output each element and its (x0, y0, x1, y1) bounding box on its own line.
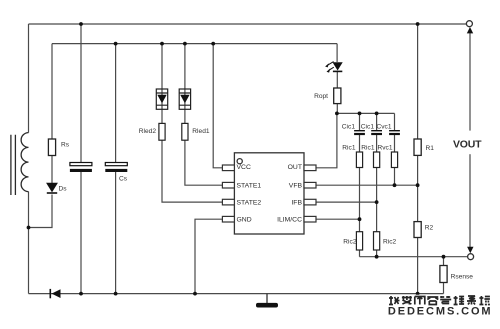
node bottom rail / GND (193, 292, 197, 296)
wire top rail (29, 23, 467, 25)
svg-text:R2: R2 (425, 225, 434, 232)
svg-text:Rsense: Rsense (451, 274, 474, 281)
wire compensation rail (337, 112, 395, 114)
svg-text:STATE2: STATE2 (237, 200, 262, 207)
svg-text:Ds: Ds (59, 186, 68, 193)
node VCC rail / VCC pin (211, 42, 215, 46)
wire Rs branch top (51, 44, 53, 139)
wire VFB pin to divider (316, 184, 418, 186)
pin box OUT (304, 165, 316, 171)
arrowhead down at VOUT- (467, 247, 473, 253)
resistor Ropt (334, 88, 341, 104)
wire GND pin to bottom rail (195, 219, 222, 293)
pin box STATE2 (222, 199, 234, 205)
transformer T1 winding arcs (21, 133, 28, 192)
op-amp U1 body (234, 153, 304, 234)
node VCC rail / D1 (183, 42, 187, 46)
pin box GND (222, 216, 234, 222)
wire primary winding left vertical top (28, 24, 30, 133)
pin box STATE1 (222, 182, 234, 188)
svg-text:Rled1: Rled1 (192, 128, 210, 135)
svg-text:VCC: VCC (237, 164, 251, 171)
capacitor C1 (70, 163, 92, 173)
pin 1 indicator circle (237, 159, 242, 164)
svg-text:Cvc1: Cvc1 (376, 124, 391, 131)
svg-text:IFB: IFB (291, 200, 302, 207)
wire Rsense top (443, 257, 445, 266)
wire comp branch3 lower (394, 168, 396, 186)
node comp rail / branch2 (375, 112, 379, 116)
node bottom rail / R2 (416, 292, 420, 296)
svg-text:R1: R1 (426, 145, 435, 152)
wire IFB pin (316, 201, 377, 203)
node IFB / branch2 (375, 200, 379, 204)
ground symbol (256, 294, 278, 308)
wire opto LED branch (336, 44, 338, 88)
svg-text:Ropt: Ropt (314, 93, 328, 100)
node comp rail / Ropt (335, 112, 339, 116)
wire Ds to winding jog (29, 195, 53, 228)
svg-text:Cic1: Cic1 (342, 124, 356, 131)
wire comp branch1 lower (359, 168, 361, 257)
resistor Rsense (440, 266, 447, 283)
capacitor Cic1 (branch1) (354, 131, 365, 134)
node ILIM / branch1 (358, 217, 362, 221)
node top rail / R1 (416, 22, 420, 26)
wire VOUT arrow line upper (469, 33, 471, 131)
node VCC rail / Cs (114, 42, 118, 46)
svg-text:Rled2: Rled2 (139, 128, 157, 135)
wire bottom ground rail (29, 293, 444, 295)
wire VOUT arrow line lower (469, 154, 471, 247)
resistor Rled1 (182, 123, 188, 140)
svg-text:Ric2: Ric2 (383, 239, 397, 246)
wire ILIM/CC pin (316, 218, 360, 220)
wire R1 branch (417, 24, 419, 185)
node VFB / Rvc1 (393, 183, 397, 187)
wire cap Cs branch (115, 44, 117, 294)
svg-text:DEDECMS.COM: DEDECMS.COM (388, 305, 493, 317)
resistor R1 (414, 139, 421, 155)
resistor Ric1 (356, 152, 362, 168)
wire comp branch2 upper (376, 113, 378, 152)
svg-text:Cic1: Cic1 (361, 124, 375, 131)
capacitor Cic1 (branch2) (371, 131, 382, 134)
node bottom rail / Cs (114, 292, 118, 296)
wire VOUT minus rail (360, 256, 468, 258)
wire Rsense bottom (443, 283, 445, 294)
wire R2 branch (417, 185, 419, 293)
LED D2 (in package box) (156, 89, 167, 109)
resistor Ric1 (branch2) (374, 152, 380, 168)
svg-text:OUT: OUT (288, 164, 302, 171)
node VOUT- rail / Rsense (442, 255, 446, 259)
wire Rled1 to STATE1 (185, 140, 223, 185)
node comp rail / branch1 (358, 112, 362, 116)
terminal VOUT- circle (468, 254, 474, 260)
wire LED D1 branch (184, 44, 186, 124)
svg-text:Cs: Cs (119, 176, 128, 183)
pin box VCC (222, 165, 234, 171)
terminal VOUT+ circle (466, 21, 472, 27)
resistor Rs (48, 139, 55, 156)
wire OUT pin to comp rail (316, 113, 337, 167)
wire Rled2 to STATE2 (162, 140, 222, 202)
resistor Ric2 (left) (356, 232, 362, 250)
LED D1 (in package box) (179, 89, 190, 109)
wire comp branch2 lower (376, 168, 378, 257)
pin box IFB (304, 199, 316, 205)
wire LED D2 branch (161, 44, 163, 124)
wire cap C1 branch (80, 24, 82, 294)
svg-text:Ric2: Ric2 (343, 239, 357, 246)
node winding / Ds return (27, 226, 31, 230)
arrowhead up at VOUT+ (467, 27, 473, 33)
svg-text:Ric1: Ric1 (342, 145, 356, 152)
wire Ropt to comp rail (336, 104, 338, 114)
svg-text:ILIM/CC: ILIM/CC (277, 216, 302, 223)
capacitor Cs (105, 163, 127, 173)
resistor Rled2 (159, 123, 165, 140)
resistor Ric2 (right) (374, 232, 380, 250)
wire Rs to Ds (51, 156, 53, 184)
svg-text:VFB: VFB (289, 183, 303, 190)
node VCC rail / D2 (160, 42, 164, 46)
svg-text:Ric1: Ric1 (361, 145, 375, 152)
capacitor Cvc1 (branch3) (389, 131, 400, 134)
pin box VFB (304, 182, 316, 188)
wire second rail (VCC net) (52, 43, 337, 45)
svg-text:Rs: Rs (61, 142, 70, 149)
wire primary winding left vertical bottom (28, 192, 30, 294)
wire comp branch3 upper (394, 113, 396, 152)
svg-text:STATE1: STATE1 (237, 183, 262, 190)
resistor Rvc1 (391, 152, 397, 168)
node VFB / R1 R2 (416, 183, 420, 187)
svg-text:GND: GND (237, 216, 252, 223)
node top rail / C1 (79, 22, 83, 26)
node VOUT- rail / Ric2 (375, 255, 379, 259)
diode D4 on bottom rail (50, 289, 60, 298)
optocoupler LED D3 (325, 62, 343, 73)
transformer T1 core lines (11, 135, 16, 195)
pin box ILIM/CC (304, 216, 316, 222)
node bottom rail / C1 (79, 292, 83, 296)
svg-text:VOUT: VOUT (453, 139, 482, 151)
diode Ds (47, 183, 58, 193)
resistor R2 (414, 222, 421, 238)
wire VCC branch (213, 44, 222, 168)
wire comp branch1 upper (359, 113, 361, 152)
svg-text:Rvc1: Rvc1 (377, 145, 392, 152)
